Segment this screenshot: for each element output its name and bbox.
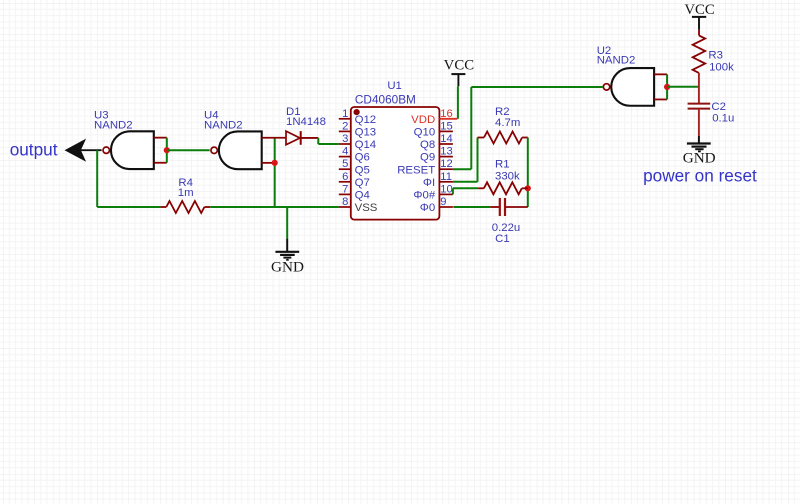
U1 pin 9 stub/number/name bbox=[439, 206, 453, 208]
U1 pin 1 stub/number/name bbox=[339, 118, 351, 120]
nand gate U2 bbox=[611, 68, 654, 106]
gnd symbol below C2 bbox=[698, 136, 700, 143]
wire pin10 to R1 bbox=[452, 188, 454, 194]
wire U2 inputs to R3/C2 node bbox=[667, 86, 699, 88]
svg-text:power on reset: power on reset bbox=[643, 165, 757, 185]
wire pin9 to C1 bbox=[453, 206, 490, 208]
svg-text:11: 11 bbox=[440, 171, 452, 183]
svg-text:GND: GND bbox=[271, 259, 304, 276]
svg-text:0.1u: 0.1u bbox=[712, 112, 734, 124]
wire VCC to pin16 bbox=[457, 86, 459, 119]
U1 pin 4 stub/number/name bbox=[339, 156, 351, 158]
U1 pin 11 stub/number/name bbox=[439, 181, 453, 183]
svg-text:Φ0: Φ0 bbox=[420, 202, 435, 214]
wire R4 right to VSS pin8 bbox=[210, 206, 338, 208]
svg-text:Q14: Q14 bbox=[355, 139, 377, 151]
U1 pin 10 stub/number/name bbox=[439, 193, 453, 195]
capacitor C1 bbox=[490, 206, 499, 208]
svg-text:9: 9 bbox=[440, 196, 446, 208]
resistor R4 bbox=[160, 206, 166, 208]
svg-text:Q12: Q12 bbox=[355, 114, 377, 126]
svg-text:VCC: VCC bbox=[444, 58, 475, 74]
wire U2 output long run bbox=[471, 86, 603, 88]
svg-text:12: 12 bbox=[440, 158, 452, 170]
U1 pin 16 stub/number/name bbox=[439, 118, 457, 120]
U1 pin 13 stub/number/name bbox=[439, 156, 453, 158]
U1 pin1 marker dot bbox=[354, 109, 360, 115]
junction U4 bottom input bbox=[272, 160, 278, 166]
svg-text:5: 5 bbox=[342, 158, 348, 170]
nand gate U3 bbox=[111, 131, 154, 169]
U1 pin 6 stub/number/name bbox=[339, 181, 351, 183]
svg-text:7: 7 bbox=[342, 183, 348, 195]
svg-text:6: 6 bbox=[342, 171, 348, 183]
svg-text:330k: 330k bbox=[495, 170, 520, 182]
wire U3 input tie bbox=[166, 138, 168, 163]
svg-text:Φ0#: Φ0# bbox=[413, 190, 435, 202]
wire arrow to U3 bubble (black) bbox=[79, 149, 102, 151]
junction U2 inputs bbox=[664, 84, 670, 90]
svg-text:Q10: Q10 bbox=[414, 127, 436, 139]
IC U1 CD4060BM body bbox=[351, 107, 440, 220]
svg-text:VSS: VSS bbox=[355, 202, 378, 214]
svg-text:2: 2 bbox=[342, 120, 348, 132]
resistor R2 bbox=[478, 137, 485, 139]
svg-text:Q7: Q7 bbox=[355, 177, 370, 189]
junction U3 inputs bbox=[164, 147, 170, 153]
net port arrow "output" bbox=[66, 140, 85, 160]
svg-text:VDD: VDD bbox=[411, 114, 435, 126]
U1 pin 12 stub/number/name bbox=[439, 168, 453, 170]
wire U4 input tie down to R4 line bbox=[274, 138, 276, 207]
svg-text:VCC: VCC bbox=[684, 2, 715, 18]
U3 input pin stubs bbox=[154, 137, 167, 139]
svg-text:C2: C2 bbox=[711, 101, 726, 113]
wire down to gnd bbox=[286, 207, 288, 239]
svg-text:1m: 1m bbox=[178, 187, 194, 199]
U1 pin 15 stub/number/name bbox=[439, 130, 453, 132]
svg-text:NAND2: NAND2 bbox=[204, 120, 243, 132]
U1 pin 5 stub/number/name bbox=[339, 168, 351, 170]
nand gate U4 bbox=[219, 131, 262, 169]
U2 input stubs bbox=[654, 73, 667, 75]
svg-text:NAND2: NAND2 bbox=[94, 120, 133, 132]
svg-text:Q4: Q4 bbox=[355, 190, 370, 202]
U1 pin 14 stub/number/name bbox=[439, 143, 453, 145]
svg-text:output: output bbox=[10, 139, 58, 159]
U1 pin 8 stub/number/name bbox=[339, 206, 351, 208]
svg-text:R3: R3 bbox=[708, 49, 723, 61]
svg-text:GND: GND bbox=[683, 150, 716, 167]
U1 pin 2 stub/number/name bbox=[339, 130, 351, 132]
svg-text:NAND2: NAND2 bbox=[597, 55, 636, 67]
wire D1 to pin3 bbox=[317, 138, 319, 144]
svg-text:1: 1 bbox=[342, 108, 348, 120]
svg-text:100k: 100k bbox=[709, 62, 734, 74]
wire U2 input tie bbox=[666, 74, 668, 99]
svg-text:4: 4 bbox=[342, 146, 348, 158]
resistor R3 bbox=[698, 30, 700, 36]
svg-text:13: 13 bbox=[440, 146, 452, 158]
svg-text:8: 8 bbox=[342, 196, 348, 208]
svg-text:ΦI: ΦI bbox=[423, 177, 435, 189]
svg-text:Q13: Q13 bbox=[355, 127, 377, 139]
svg-text:Q6: Q6 bbox=[355, 152, 370, 164]
svg-text:3: 3 bbox=[342, 133, 348, 145]
U1 pin 7 stub/number/name bbox=[339, 193, 351, 195]
svg-text:4.7m: 4.7m bbox=[495, 117, 520, 129]
U4 top stub + D1 anode lead bbox=[262, 137, 286, 139]
U1 pin 3 stub/number/name bbox=[339, 143, 351, 145]
svg-text:10: 10 bbox=[440, 183, 452, 195]
svg-text:16: 16 bbox=[440, 108, 452, 120]
svg-text:R1: R1 bbox=[495, 159, 510, 171]
wire output node down to R4 bbox=[96, 150, 98, 207]
capacitor C2 bbox=[688, 103, 711, 105]
svg-text:14: 14 bbox=[440, 133, 452, 145]
junction R1/R2/C1 right node bbox=[525, 185, 531, 191]
wire to R4 left bbox=[97, 206, 160, 208]
svg-text:15: 15 bbox=[440, 120, 452, 132]
svg-text:U1: U1 bbox=[387, 80, 402, 92]
wire U4 output to U3 inputs bbox=[167, 149, 210, 151]
svg-text:Q9: Q9 bbox=[420, 152, 435, 164]
svg-text:1N4148: 1N4148 bbox=[286, 116, 326, 128]
wire R2 right down to C1 right bbox=[527, 138, 529, 208]
svg-text:RESET: RESET bbox=[397, 164, 435, 176]
svg-text:Q5: Q5 bbox=[355, 164, 370, 176]
svg-text:Q8: Q8 bbox=[420, 139, 435, 151]
wire pin11 to R2 bbox=[453, 181, 478, 183]
resistor R1 bbox=[478, 187, 484, 189]
U4 bottom input stub bbox=[262, 162, 275, 164]
svg-text:CD4060BM: CD4060BM bbox=[355, 92, 416, 106]
svg-text:C1: C1 bbox=[495, 233, 510, 245]
